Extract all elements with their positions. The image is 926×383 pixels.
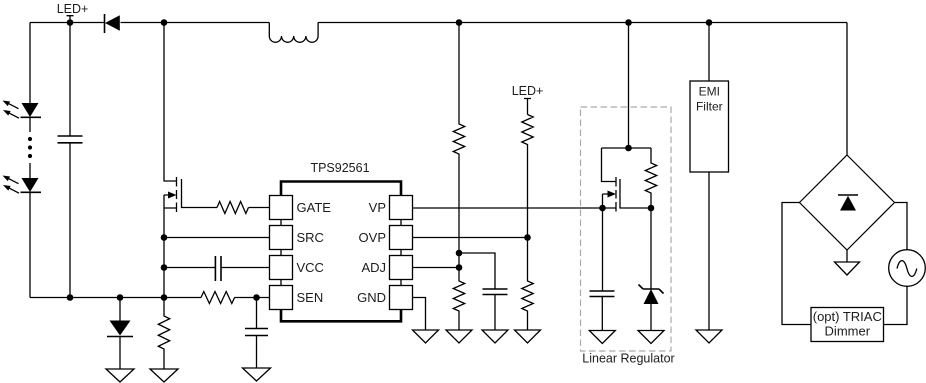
svg-text:Filter: Filter (696, 100, 723, 114)
svg-text:EMI: EMI (699, 85, 720, 99)
svg-text:(opt) TRIAC: (opt) TRIAC (813, 309, 882, 324)
svg-text:OVP: OVP (359, 230, 386, 245)
svg-text:SRC: SRC (297, 230, 324, 245)
svg-text:Linear Regulator: Linear Regulator (582, 352, 674, 366)
svg-text:GATE: GATE (297, 200, 332, 215)
svg-text:LED+: LED+ (512, 84, 544, 98)
svg-text:SEN: SEN (297, 290, 324, 305)
svg-text:ADJ: ADJ (361, 260, 386, 275)
svg-text:TPS92561: TPS92561 (310, 161, 369, 175)
svg-text:VP: VP (369, 200, 386, 215)
svg-text:GND: GND (357, 290, 386, 305)
svg-text:VCC: VCC (297, 260, 324, 275)
svg-text:Dimmer: Dimmer (825, 324, 871, 339)
svg-text:LED+: LED+ (57, 2, 89, 16)
